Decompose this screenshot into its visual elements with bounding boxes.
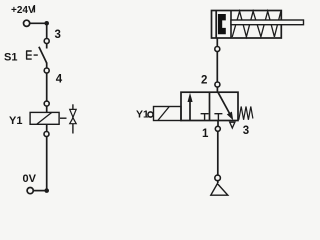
valve port 1 stub [217, 121, 219, 127]
svg-text:S1: S1 [4, 51, 17, 63]
svg-text:Y1: Y1 [9, 115, 22, 127]
cylinder piston plate right [230, 11, 232, 38]
wire rail segment to node 3 [46, 23, 48, 38]
air supply triangle [211, 184, 228, 196]
tube valve port 1 to air supply [217, 131, 219, 183]
valve solenoid connection circle [148, 112, 153, 117]
valve diagonal arrow head [227, 112, 233, 121]
terminal bar after +24V [34, 5, 36, 12]
tube cylinder to valve port 2 [216, 52, 218, 83]
junction dot at 0V [44, 188, 49, 193]
valve left square blocked port 3 (T) [201, 114, 209, 121]
0V terminal circle [27, 188, 33, 194]
svg-text:+24V: +24V [11, 5, 35, 16]
exhaust triangle port 3 [230, 122, 235, 128]
+24V terminal circle [24, 20, 30, 26]
valve U1 body [181, 92, 238, 120]
node 3 circle [44, 39, 49, 44]
coil Y1 top terminal circle [44, 101, 49, 106]
wire from 0V terminal to rail [34, 190, 47, 192]
svg-text:2: 2 [201, 74, 207, 86]
valve port 2 stub [216, 87, 218, 92]
svg-text:3: 3 [55, 29, 61, 41]
junction dot at +24V [44, 21, 49, 26]
cylinder port stub [216, 38, 218, 47]
valve right square blocked port 1 (T) [214, 114, 222, 121]
switch S1 push-button actuator (E shape) [26, 51, 38, 59]
cylinder piston magnet [218, 14, 226, 34]
svg-text:Y1: Y1 [136, 108, 149, 120]
switch S1 bottom stub [46, 63, 48, 69]
cylinder return spring [232, 11, 281, 37]
valve left square flow arrow shaft [189, 98, 191, 121]
valve-link upper triangle [70, 109, 77, 117]
piston rod [231, 20, 304, 25]
coil Y1 diagonal [37, 112, 52, 124]
svg-text:0V: 0V [23, 173, 37, 185]
wire from +24V terminal to main rail [30, 22, 47, 24]
svg-text:3: 3 [243, 125, 249, 137]
switch S1 blade [39, 47, 47, 63]
valve left square flow arrow head [188, 93, 193, 102]
valve divider [209, 92, 211, 120]
solenoid coil Y1 body [30, 112, 59, 124]
valve return spring [239, 107, 253, 120]
wire rail segment node4 to coil [46, 73, 48, 101]
valve-link symbol stem [72, 104, 74, 133]
valve port 1 circle [215, 126, 220, 131]
valve right square diagonal 2 to 3 [218, 92, 232, 117]
coil Y1 bottom stub [46, 124, 48, 131]
cylinder piston plate left [215, 11, 217, 38]
svg-text:1: 1 [202, 128, 209, 140]
switch S1 top stub [46, 44, 48, 49]
valve port 2 circle [215, 82, 220, 87]
valve solenoid diagonal [158, 107, 170, 121]
valve-link lower triangle [70, 118, 77, 124]
wire rail segment coil to 0V [46, 137, 48, 191]
valve solenoid box [154, 107, 182, 121]
cylinder port circle [215, 47, 220, 52]
node 4 circle [44, 68, 49, 73]
air supply connection circle [215, 175, 221, 181]
dash from coil to valve-link symbol [60, 117, 67, 119]
svg-text:4: 4 [56, 74, 63, 86]
coil Y1 top stub [46, 106, 48, 112]
cylinder barrel [212, 11, 282, 39]
coil Y1 bottom terminal circle [44, 132, 49, 137]
